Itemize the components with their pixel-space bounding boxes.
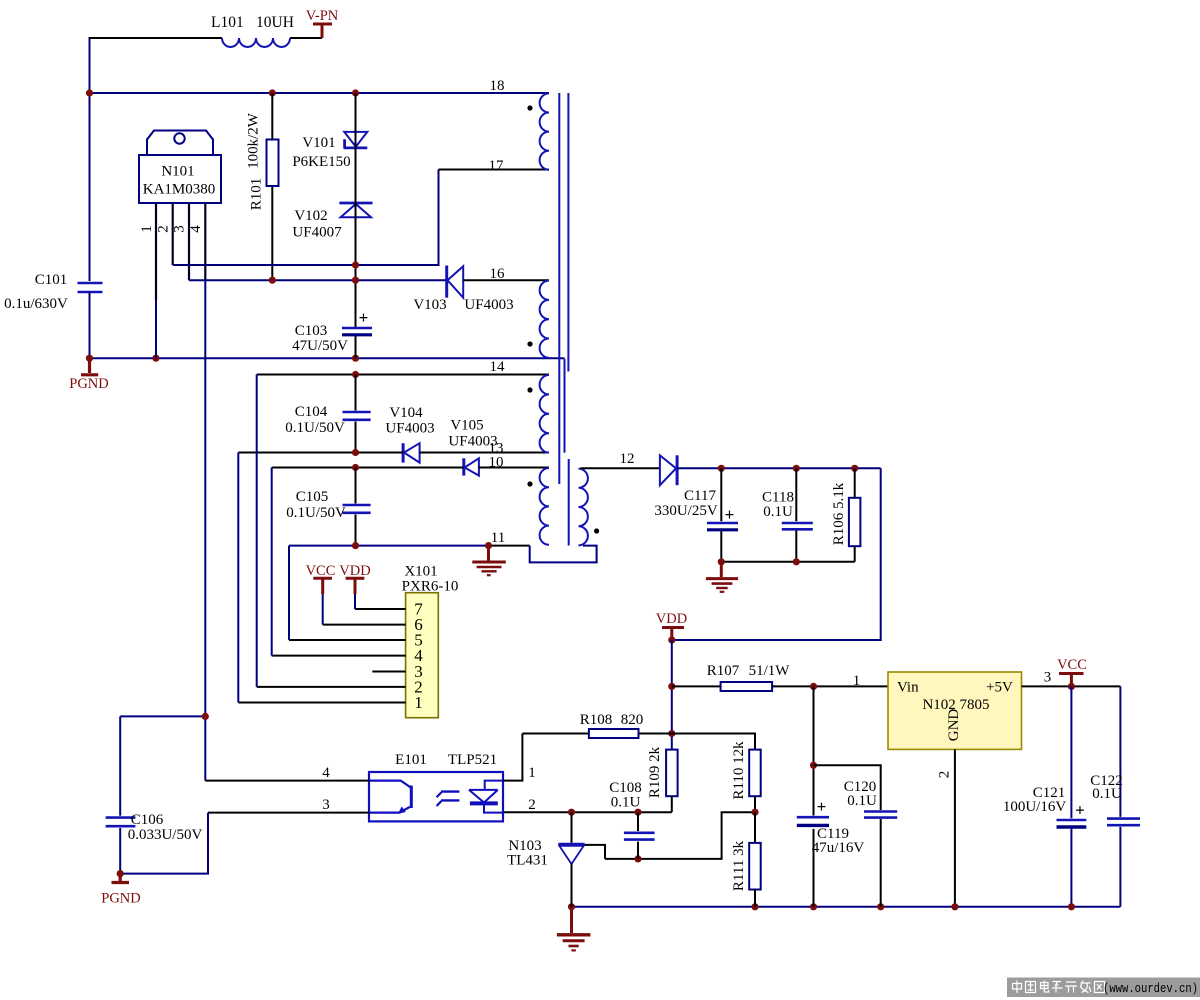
terminal VCC right	[1057, 657, 1087, 690]
transformer winding 10-11	[540, 468, 549, 545]
svg-text:TLP521: TLP521	[448, 752, 497, 768]
diode V102 UF4007	[339, 203, 372, 217]
N102 pin 3 wire	[1022, 670, 1121, 687]
svg-text:PGND: PGND	[69, 376, 108, 392]
svg-text:2: 2	[528, 797, 536, 813]
capacitor C104 0.1U/50V	[285, 375, 370, 453]
X101 pin 6 wire	[323, 624, 406, 626]
resistor R108 820	[522, 712, 671, 738]
svg-text:0.1U: 0.1U	[847, 793, 877, 809]
wire 18 (input bus)	[90, 78, 550, 94]
svg-text:PGND: PGND	[101, 891, 140, 907]
regulator N102 7805	[888, 672, 1022, 749]
wire VDD feed down	[672, 468, 881, 640]
capacitor C118 0.1U	[762, 468, 813, 562]
capacitor C119 47u/16V	[797, 686, 865, 906]
capacitor C117 330U/25V	[654, 468, 738, 562]
svg-text:GND: GND	[946, 709, 962, 742]
svg-text:0.1U: 0.1U	[763, 504, 793, 520]
svg-text:10UH: 10UH	[256, 14, 294, 31]
shunt regulator N103 TL431	[507, 812, 605, 907]
svg-text:Vin: Vin	[897, 680, 919, 696]
svg-text:2: 2	[937, 771, 953, 779]
svg-text:C105: C105	[296, 489, 329, 505]
svg-text:X101: X101	[404, 564, 437, 580]
wire 11	[289, 530, 530, 549]
svg-text:3: 3	[172, 225, 188, 233]
transformer core line B	[564, 359, 566, 453]
svg-text:N101: N101	[161, 164, 194, 180]
ground at winding 11	[472, 546, 506, 576]
X101 pin 7 wire	[355, 608, 406, 610]
junction dots secondary rail	[718, 465, 859, 472]
svg-text:V103: V103	[413, 297, 446, 313]
svg-text:V101: V101	[302, 135, 335, 151]
transformer winding 14-13	[540, 375, 549, 453]
wire 16 right	[463, 266, 549, 282]
svg-text:R108: R108	[580, 712, 613, 728]
diode V103 UF4003	[447, 266, 464, 298]
capacitor C122 0.1U	[1090, 686, 1140, 906]
wire riser pin1 to 13	[237, 453, 239, 703]
wire primary feedback	[120, 713, 209, 781]
phase dot winding 18	[527, 105, 532, 110]
svg-text:820: 820	[621, 712, 644, 728]
wire 14	[257, 359, 549, 378]
junction dots VDD vertical	[668, 683, 675, 737]
svg-text:0.1u/630V: 0.1u/630V	[4, 296, 68, 312]
ground under C117	[706, 562, 738, 592]
wire riser pin5 to 11	[288, 546, 290, 640]
svg-text:(www.ourdev.cn): (www.ourdev.cn)	[1103, 981, 1198, 996]
svg-text:0.1U/50V: 0.1U/50V	[285, 420, 345, 436]
transformer core line C	[568, 459, 570, 546]
capacitor C108 0.1U	[609, 780, 654, 859]
svg-text:47U/50V: 47U/50V	[292, 338, 348, 354]
capacitor C120 0.1U	[814, 765, 898, 907]
svg-text:+: +	[725, 505, 735, 524]
wire left vertical	[89, 38, 91, 281]
phase dot secondary	[594, 528, 599, 533]
resistor R110 12k	[731, 741, 761, 812]
svg-text:R111 3k: R111 3k	[731, 840, 747, 891]
svg-text:3: 3	[322, 797, 330, 813]
svg-text:1: 1	[139, 225, 155, 233]
V104 labels	[385, 405, 434, 437]
svg-text:12: 12	[620, 451, 635, 467]
svg-text:KA1M0380: KA1M0380	[143, 182, 216, 198]
wire E101 pin 1	[503, 734, 522, 781]
capacitor C103 47U/50V	[292, 308, 372, 354]
svg-text:R107: R107	[707, 663, 740, 679]
phase dot winding 16	[527, 341, 532, 346]
svg-text:V-PN: V-PN	[306, 8, 339, 24]
N101 pin 4	[188, 203, 206, 716]
wire TL431 ref net	[605, 809, 759, 863]
TVS V101 P6KE150	[344, 132, 368, 148]
svg-text:2: 2	[156, 225, 172, 233]
wire ground rail bottom	[572, 906, 1121, 908]
wire snubber chain	[355, 93, 357, 358]
capacitor C105 0.1U/50V	[286, 468, 370, 546]
wire N101 pin2 net	[173, 170, 439, 266]
svg-text:VCC: VCC	[1057, 657, 1087, 673]
diode V105 UF4003	[464, 458, 479, 475]
transformer secondary winding 12	[579, 469, 588, 546]
resistor R111 3k	[731, 812, 761, 907]
svg-text:330U/25V: 330U/25V	[654, 503, 718, 519]
wire VDD vertical	[671, 640, 673, 750]
X101 pin 2 wire	[257, 686, 406, 688]
wire E101 pin 4	[205, 780, 369, 782]
svg-text:16: 16	[490, 266, 506, 282]
resistor R101 100k/2W	[246, 93, 279, 280]
svg-text:VDD: VDD	[656, 611, 687, 627]
capacitor C106 0.033U/50V	[106, 716, 203, 873]
wire 17	[439, 158, 550, 174]
junction dots ground rail	[568, 903, 1075, 910]
svg-text:R110 12k: R110 12k	[731, 741, 747, 800]
capacitor C101 0.1u/630V	[4, 272, 102, 358]
X101 pin 1 wire	[238, 702, 405, 704]
X101 pin 4 wire	[272, 655, 406, 657]
junction dots wire16	[269, 277, 359, 284]
svg-text:V105: V105	[450, 418, 483, 434]
V105 labels	[448, 418, 497, 450]
svg-text:VDD: VDD	[339, 563, 370, 579]
transformer core line A right	[567, 93, 569, 372]
svg-text:0.1U: 0.1U	[1092, 786, 1122, 802]
wire riser pin4 to 10	[271, 468, 273, 656]
svg-text:R106 5.1k: R106 5.1k	[831, 482, 847, 545]
wire filter bottom	[721, 561, 854, 563]
svg-text:C103: C103	[295, 323, 328, 339]
svg-text:3: 3	[1044, 670, 1052, 686]
junction dots rail	[86, 355, 359, 362]
svg-text:R101: R101	[249, 178, 265, 211]
svg-text:PXR6-10: PXR6-10	[402, 579, 459, 595]
phase dot winding 10	[527, 481, 532, 486]
terminal V-PN	[306, 8, 339, 38]
svg-text:R109 2k: R109 2k	[647, 746, 663, 798]
X101 pin 3 stub	[372, 671, 405, 673]
terminal VDD	[656, 611, 687, 644]
wire 13	[238, 441, 549, 457]
svg-text:+: +	[359, 308, 369, 327]
svg-text:11: 11	[491, 530, 505, 546]
svg-text:47u/16V: 47u/16V	[812, 840, 865, 856]
junction dot pin2/V102	[352, 261, 359, 268]
svg-text:+: +	[817, 797, 827, 816]
diode V104 UF4003	[403, 443, 420, 462]
svg-text:+5V: +5V	[986, 680, 1013, 696]
svg-text:0.1U: 0.1U	[611, 795, 641, 811]
svg-text:UF4003: UF4003	[464, 297, 513, 313]
svg-text:14: 14	[490, 359, 506, 375]
svg-text:L101: L101	[211, 14, 244, 31]
phase dot winding 14	[527, 387, 532, 392]
wire riser pin2 to 14	[256, 375, 258, 687]
resistor R107 51/1W	[672, 663, 888, 691]
svg-text:0.1U/50V: 0.1U/50V	[286, 505, 346, 521]
svg-text:C104: C104	[295, 404, 328, 420]
wire opto pin2 net	[503, 809, 672, 816]
wire E101 pin 3	[208, 812, 369, 814]
transformer bottom bracket	[530, 546, 597, 563]
ground PGND left	[69, 358, 108, 392]
svg-text:P6KE150: P6KE150	[292, 154, 350, 170]
svg-text:V102: V102	[294, 208, 327, 224]
V103 labels	[413, 297, 513, 313]
transformer winding 16	[540, 281, 549, 358]
connector X101 PXR6-10	[402, 564, 459, 718]
junction dots bus 18	[86, 89, 359, 96]
transformer core line A left	[558, 93, 560, 484]
wire PGND rail	[90, 357, 565, 359]
N101 pin 2	[156, 203, 173, 265]
svg-text:VCC: VCC	[306, 563, 336, 579]
junction dots filter bottom	[718, 558, 800, 565]
svg-text:18: 18	[490, 78, 505, 94]
svg-text:17: 17	[489, 158, 505, 174]
wire 10	[272, 455, 549, 472]
wire top input to L101	[90, 38, 323, 93]
svg-text:4: 4	[188, 225, 204, 233]
X101 pin 5 wire	[289, 639, 406, 641]
svg-text:1: 1	[853, 673, 861, 689]
ground under TL431 rail	[557, 907, 591, 951]
capacitor C121 100U/16V	[1003, 686, 1086, 906]
terminal VDD left	[339, 563, 370, 609]
svg-text:4: 4	[322, 765, 330, 781]
svg-text:100U/16V: 100U/16V	[1003, 799, 1067, 815]
wire 16 left	[189, 279, 447, 281]
terminal VCC left	[306, 563, 336, 625]
svg-text:V104: V104	[389, 405, 423, 421]
svg-text:E101: E101	[395, 752, 427, 768]
svg-text:100k/2W: 100k/2W	[246, 112, 262, 169]
svg-text:1: 1	[528, 765, 536, 781]
optocoupler E101 TLP521	[322, 752, 536, 821]
ground PGND bottom	[101, 874, 140, 907]
svg-text:C117: C117	[684, 488, 716, 504]
resistor R109 2k	[647, 746, 678, 812]
inductor L101 10UH	[211, 14, 294, 47]
resistor R106 5.1k	[831, 468, 860, 562]
svg-text:C101: C101	[35, 272, 68, 288]
wire 12	[581, 451, 660, 468]
V101 labels	[292, 135, 350, 170]
svg-text:+: +	[1075, 801, 1085, 820]
svg-text:10: 10	[489, 455, 504, 471]
svg-text:TL431: TL431	[507, 853, 548, 869]
wire secondary rail	[677, 467, 881, 469]
diode rectifier 12V	[660, 455, 677, 485]
svg-text:UF4003: UF4003	[385, 421, 434, 437]
transformer winding 18-17	[540, 93, 549, 169]
IC N101 KA1M0380	[139, 131, 221, 204]
N102 pin 2 GND	[937, 749, 955, 906]
svg-text:C106: C106	[131, 812, 164, 828]
V102 labels	[292, 208, 342, 241]
svg-text:UF4007: UF4007	[292, 225, 342, 241]
svg-text:1: 1	[414, 693, 423, 712]
wire C106 to opto	[117, 813, 208, 878]
N101 pin 3	[172, 203, 190, 280]
svg-text:UF4003: UF4003	[448, 434, 497, 450]
wire R110 top	[672, 734, 755, 750]
svg-text:0.033U/50V: 0.033U/50V	[128, 827, 203, 843]
N101 pin 1	[139, 203, 156, 358]
watermark ourdev.cn	[1007, 978, 1200, 998]
svg-text:51/1W: 51/1W	[749, 663, 791, 679]
